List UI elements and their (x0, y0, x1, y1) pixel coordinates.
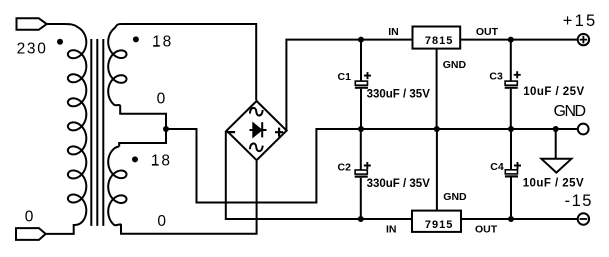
phase dot secondary 2 (132, 156, 138, 162)
wire bridge - lead to bottom rail (226, 131, 412, 219)
svg-text:OUT: OUT (475, 224, 498, 236)
svg-text:+15: +15 (563, 12, 598, 30)
svg-text:C2: C2 (338, 161, 352, 173)
bridge AC squiggle top (250, 108, 263, 116)
svg-text:7915: 7915 (425, 219, 453, 231)
node junction C2 bottom (358, 216, 364, 222)
capacitor C4 branch wire (510, 129, 512, 219)
ground symbol triangle (541, 159, 571, 173)
bridge rectifier B1 diamond (227, 101, 287, 160)
ground symbol lead (555, 129, 557, 159)
capacitor C2 plates (355, 170, 368, 177)
node junction C1/C2 mid (358, 126, 364, 132)
bridge minus sign (227, 131, 235, 133)
phase dot primary (57, 39, 63, 45)
wire top rail +15 right of U1 (460, 39, 578, 41)
svg-text:18: 18 (151, 153, 172, 170)
wire bottom rail -15 right of U2 (461, 218, 578, 220)
terminal -15 circle with minus (578, 213, 589, 224)
svg-text:230: 230 (17, 41, 48, 58)
capacitor C2 plus sign (364, 162, 371, 169)
node junction C1 top (358, 37, 364, 43)
svg-text:C4: C4 (490, 161, 504, 173)
regulator U2 7915 box (412, 211, 461, 232)
capacitor C3 plates (505, 81, 518, 88)
svg-text:IN: IN (388, 26, 399, 38)
svg-text:0: 0 (25, 209, 35, 226)
svg-text:GND: GND (443, 59, 467, 71)
transformer T1 primary return tag 0 (16, 228, 46, 240)
svg-text:0: 0 (157, 213, 167, 230)
bridge AC squiggle bottom (250, 143, 263, 151)
bridge diode symbol (250, 122, 267, 137)
transformer T1 secondary winding 2 (18V) (108, 147, 256, 234)
svg-text:IN: IN (386, 223, 397, 235)
transformer T1 primary winding (46, 24, 87, 234)
regulator U2 GND pin wire (436, 129, 438, 211)
svg-text:10uF / 25V: 10uF / 25V (523, 86, 584, 98)
svg-text:0: 0 (157, 91, 167, 108)
wire bridge + lead to top rail (286, 40, 412, 130)
svg-text:OUT: OUT (476, 26, 499, 38)
node junction C3 top (508, 37, 514, 43)
capacitor C4 plates (505, 170, 518, 177)
serif bar for 1 in 18 (sec1) (153, 45, 159, 47)
capacitor C2 branch wire (360, 129, 362, 219)
bridge plus sign (275, 128, 283, 137)
svg-text:330uF / 35V: 330uF / 35V (367, 178, 431, 190)
svg-text:18: 18 (152, 34, 173, 51)
regulator U1 GND pin wire (436, 49, 438, 129)
svg-text:C1: C1 (338, 71, 352, 83)
capacitor C3 plus sign (514, 71, 521, 78)
svg-text:-15: -15 (565, 192, 593, 210)
terminal GND circle (578, 124, 589, 135)
svg-text:GND: GND (554, 103, 586, 120)
capacitor C4 plus sign (514, 162, 521, 169)
svg-text:C3: C3 (489, 71, 503, 83)
svg-text:330uF / 35V: 330uF / 35V (367, 89, 431, 101)
serif bar for 1 in 18 (sec2) (152, 164, 158, 166)
transformer core (91, 39, 103, 226)
capacitor C1 branch wire (360, 40, 362, 129)
wire center tap to mid (GND) rail (166, 129, 578, 203)
capacitor C3 branch wire (510, 40, 512, 129)
capacitor C1 plus sign (364, 72, 371, 79)
svg-text:10uF / 25V: 10uF / 25V (523, 178, 584, 190)
capacitor C1 plates (355, 81, 368, 88)
regulator U1 7815 box (413, 27, 461, 49)
transformer T1 primary input tag 230 (17, 18, 47, 30)
node junction ground symbol (553, 126, 559, 132)
terminal +15 circle with plus (578, 34, 589, 45)
transformer T1 secondary winding 1 (18V) and wire to bridge top (108, 24, 256, 147)
node junction regulators GND mid (434, 126, 440, 132)
node center tap junction (163, 126, 169, 132)
svg-text:GND: GND (443, 191, 467, 203)
phase dot secondary 1 (133, 36, 139, 42)
node junction C4 bottom (508, 216, 514, 222)
svg-text:7815: 7815 (425, 35, 453, 47)
node junction C3/C4 mid (508, 126, 514, 132)
